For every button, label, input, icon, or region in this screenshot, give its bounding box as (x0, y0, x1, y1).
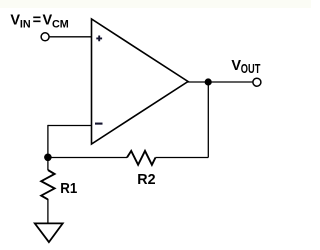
wire ground lead (47, 199, 49, 223)
wire feedback left vertical (47, 125, 49, 170)
op-amp plus input marker (96, 36, 102, 42)
op-amp minus input marker (95, 123, 103, 125)
node VOUT output terminal (253, 78, 261, 86)
svg-text:R1: R1 (60, 181, 77, 197)
wire noninverting input (49, 36, 91, 38)
resistor R1 (41, 170, 54, 199)
svg-text:OUT: OUT (241, 63, 261, 77)
wire bottom left of R2 (48, 157, 127, 159)
svg-text:V: V (43, 12, 53, 28)
op-amp U1 (92, 19, 189, 144)
junction dot node A (44, 154, 52, 162)
wire output horizontal (187, 81, 253, 83)
svg-text:V: V (231, 58, 241, 74)
label VIN = VCM (10, 12, 68, 30)
svg-text:V: V (10, 12, 20, 28)
node VIN input terminal (41, 33, 49, 41)
resistor R2 (127, 151, 156, 165)
svg-text:=: = (33, 12, 41, 28)
svg-text:R2: R2 (137, 172, 155, 188)
wire inverting input (48, 125, 92, 127)
svg-text:CM: CM (52, 19, 69, 31)
ground (35, 223, 63, 242)
wire bottom right of R2 (156, 157, 209, 159)
svg-text:IN: IN (20, 19, 31, 31)
junction dot output node (205, 78, 212, 85)
wire output right vertical (207, 82, 209, 158)
label VOUT (231, 58, 260, 77)
